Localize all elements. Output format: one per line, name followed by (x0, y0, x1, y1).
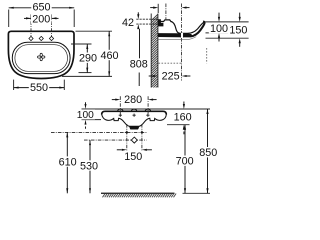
dimension 100 (front left) (82, 119, 102, 121)
dimension 42 (136, 18, 158, 20)
dimension 460 (76, 30, 113, 32)
plan view: three tap holes (29, 36, 33, 40)
dimension 550 (13, 80, 15, 90)
plan view: tap hole centre lines (30, 14, 32, 42)
front view: drain centre line B (84, 139, 147, 141)
dimension 808 (139, 29, 141, 59)
dimension 160 (167, 124, 190, 126)
side view: wall face extension above (157, 4, 159, 13)
svg-text:280: 280 (124, 94, 142, 106)
dimension 150 (front) (117, 149, 122, 151)
plan view: bowl inner rim (15, 45, 68, 72)
side view: drain centre line (181, 4, 183, 81)
plan view: bowl outer rim (12, 42, 70, 73)
dimension 280 (119, 96, 121, 115)
svg-text:610: 610 (59, 156, 77, 168)
side view: section slab fill (158, 33, 192, 36)
dimension 650 (8, 10, 10, 28)
dimension 225 (149, 75, 154, 77)
svg-text:850: 850 (199, 147, 217, 159)
svg-text:530: 530 (80, 160, 98, 172)
svg-text:290: 290 (79, 53, 97, 65)
svg-text:460: 460 (100, 50, 118, 62)
front view: rim level line with extensions (82, 108, 211, 110)
dimension 530 (89, 140, 91, 193)
front view: supply centre line A (51, 131, 147, 133)
dimension 100 (side) (218, 13, 220, 17)
front view: basin underside profile (102, 115, 167, 127)
svg-text:150: 150 (124, 151, 142, 163)
svg-text:550: 550 (30, 82, 48, 94)
side view: apron hidden edge (158, 37, 196, 40)
dimension 610 (66, 132, 68, 193)
side view: lip bottom extension line (206, 32, 229, 34)
front view: supply points (diamonds) (125, 131, 128, 134)
svg-text:100: 100 (210, 23, 228, 35)
svg-text:700: 700 (176, 156, 194, 168)
front view: floor line with hatching (101, 192, 175, 194)
dimension 850 (207, 109, 209, 193)
side view: basin cross-section (158, 20, 172, 22)
dimension 700 (184, 125, 186, 194)
svg-text:160: 160 (174, 112, 192, 124)
side view: underside thick outline (158, 22, 205, 37)
front view: floor extension line right (183, 192, 211, 194)
svg-text:650: 650 (32, 2, 50, 14)
front view: tap cross marks (119, 114, 122, 116)
front view: drain point (diamond) (131, 137, 137, 143)
front view: supply vertical centre lines (126, 124, 128, 151)
svg-text:225: 225 (162, 71, 180, 83)
dimension 150 (side) (239, 13, 241, 17)
plan view: basin outer outline (8, 31, 74, 78)
side view: bowl inner line (172, 22, 204, 34)
svg-text:42: 42 (122, 17, 134, 29)
plan view: drain rosette (40, 53, 42, 57)
side view: wall bracket (158, 19, 163, 26)
front view: basin top edge (102, 111, 167, 114)
side view: rim level extension line (205, 21, 249, 23)
side view: tap centre line above rim (165, 4, 167, 20)
side view: apron bottom extension line (206, 37, 249, 39)
front view: drain cap (129, 126, 139, 129)
dimension 200 (24, 17, 36, 19)
svg-text:808: 808 (130, 58, 148, 70)
side view: drain hole gap and ticks (181, 33, 183, 38)
front view: tap bumps on deck (117, 109, 123, 111)
svg-text:150: 150 (229, 24, 247, 36)
svg-text:200: 200 (32, 13, 50, 25)
side view: hidden drain lines (159, 62, 182, 64)
svg-text:100: 100 (77, 110, 94, 121)
dimension 290 (71, 43, 92, 45)
